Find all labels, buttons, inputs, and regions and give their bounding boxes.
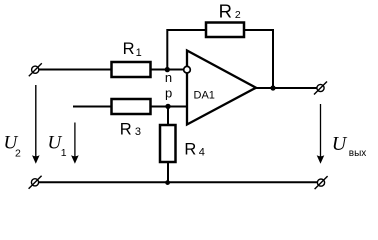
voltage arrow U vykh — [317, 104, 325, 164]
terminal input top-left — [29, 63, 42, 76]
svg-text:1: 1 — [61, 147, 67, 159]
node p junction dot — [165, 104, 170, 109]
svg-text:1: 1 — [136, 47, 142, 59]
svg-text:R: R — [123, 40, 135, 58]
svg-text:p: p — [165, 86, 172, 101]
op-amp DA1 triangle — [187, 51, 256, 125]
node output junction dot — [270, 85, 275, 90]
resistor R4 — [160, 125, 176, 162]
resistor R3 — [112, 99, 151, 114]
svg-text:DA1: DA1 — [194, 90, 215, 102]
svg-text:4: 4 — [199, 147, 205, 159]
inversion bubble — [184, 66, 191, 73]
node n junction dot — [165, 67, 170, 72]
voltage arrow U1 — [71, 123, 79, 164]
svg-text:2: 2 — [15, 148, 21, 160]
resistor R1 — [112, 62, 151, 77]
terminal bottom-left — [29, 176, 42, 189]
voltage arrow U2 — [32, 85, 40, 164]
wire p node to R4 — [167, 107, 169, 126]
wire bottom rail — [39, 181, 318, 183]
svg-text:R: R — [219, 1, 232, 22]
wire R3 to op-amp noninverting input — [151, 106, 188, 108]
svg-text:n: n — [165, 70, 172, 85]
wire R2 right + feedback right vertical — [244, 30, 273, 88]
terminal output — [314, 82, 327, 95]
svg-text:R: R — [120, 121, 132, 139]
wire R4 to ground rail — [167, 162, 169, 182]
junction dot R4-rail — [165, 180, 170, 185]
svg-text:R: R — [184, 141, 196, 159]
wire input terminal to R1 — [38, 69, 112, 71]
svg-text:3: 3 — [135, 126, 141, 138]
wire p input left segment — [73, 106, 112, 108]
svg-text:2: 2 — [235, 9, 241, 21]
wire output — [256, 87, 317, 89]
svg-text:U: U — [332, 133, 348, 155]
terminal bottom-right — [315, 176, 328, 189]
svg-text:вых: вых — [349, 148, 367, 159]
wire feedback left vertical — [167, 30, 206, 70]
wire R1 to inverting input bubble — [151, 69, 185, 71]
resistor R2 — [206, 23, 244, 38]
